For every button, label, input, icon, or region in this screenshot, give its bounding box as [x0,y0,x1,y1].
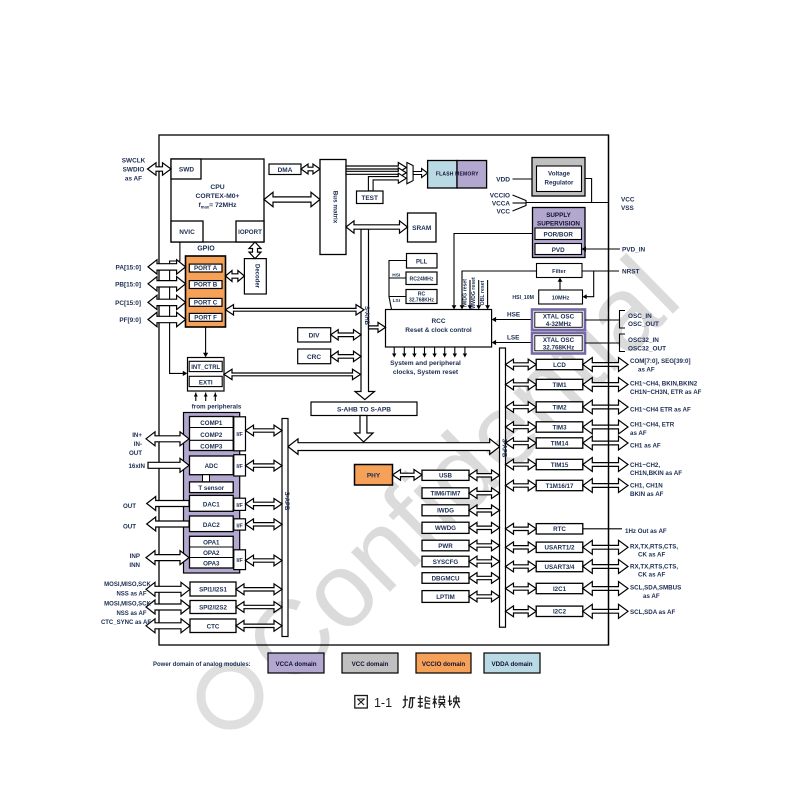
arrow I2C1-pins [583,582,628,596]
wire HSE line [496,319,532,321]
svg-text:OUT: OUT [123,523,136,530]
block MEMORY (purple) [457,161,487,189]
block XTAL OSC 32KHz inner [535,336,582,351]
svg-text:XTAL OSC: XTAL OSC [543,337,575,344]
svg-text:VCC domain: VCC domain [352,661,389,668]
svg-text:FLASH MEMORY: FLASH MEMORY [436,172,479,178]
svg-text:DIV: DIV [309,333,321,340]
svg-text:SUPPLY: SUPPLY [546,212,571,219]
block INT_CTRL outer [188,358,225,392]
svg-text:LSI: LSI [393,298,401,304]
arrow COMP inputs [146,432,189,446]
group analog domain (purple) [184,413,240,574]
svg-text:COM[7:0], SEG[39:0]: COM[7:0], SEG[39:0] [630,358,691,365]
arrow TIM3-pins [583,420,628,434]
svg-text:MOSI,MISO,SCK: MOSI,MISO,SCK [104,601,151,607]
arrow USART1/2-pins [583,540,628,554]
wire PVD_IN line [582,248,621,250]
svg-text:SCL,SDA,SMBUS: SCL,SDA,SMBUS [630,585,681,592]
block LPTIM [422,591,469,603]
svg-text:CK as AF: CK as AF [638,552,665,559]
wire OBL reset line [487,280,489,306]
node EXTI tick arrowheads [194,393,198,397]
arrow LCD-pins [583,358,628,372]
wire VCCIO tick [513,195,527,201]
block TIM15 [536,459,583,469]
svg-text:USB: USB [439,473,453,480]
block SPI1/I2S1 [190,582,236,596]
svg-text:INP: INP [130,553,140,560]
bar left S-APB [282,419,288,637]
block USB [422,470,469,480]
wire rail to RCC [389,297,392,310]
wire OSC bracket [620,311,626,329]
svg-text:PA[15:0]: PA[15:0] [116,264,141,271]
node arrowhead 10MHz-Filter [558,278,563,282]
svg-text:PB[15:0]: PB[15:0] [115,281,141,288]
svg-text:SUPERVISION: SUPERVISION [537,221,580,228]
svg-text:as AF: as AF [638,367,655,374]
arrow busmatrix-flashmux lower [346,168,406,178]
svg-text:WWDG reset: WWDG reset [471,277,477,309]
block EXTI [189,376,222,386]
svg-text:IN-: IN- [134,441,142,448]
svg-text:CH1~CH4 ETR as AF: CH1~CH4 ETR as AF [630,407,691,414]
svg-text:S-APB: S-APB [283,492,289,511]
svg-text:I/F: I/F [236,524,243,530]
svg-text:TIM2: TIM2 [552,404,567,411]
block PHY (orange) [355,465,393,486]
wire LSE line [496,342,532,344]
wire NRST junction to 10MHz [586,271,594,297]
block CTC [190,619,236,633]
arrow DAC1 OUT [147,497,189,511]
svg-text:OPA1: OPA1 [203,540,220,547]
block PORT B [189,281,222,289]
block PVD [535,244,582,255]
arrow CTC pins [146,619,190,633]
arrow GPIO-SAHB bus [226,305,365,315]
block DIV [298,328,331,342]
block FLASH (blue) [428,161,457,189]
svg-text:EXTI: EXTI [199,379,213,386]
svg-text:32.768KHz: 32.768KHz [543,345,575,352]
svg-text:PHY: PHY [367,473,381,480]
block TIM14 [536,438,583,448]
block TEST [357,191,384,204]
arrow PB port [148,277,186,291]
arrow flashmux-flash [413,169,428,178]
arrow S-APB backbone [288,439,500,455]
node arrowhead LSE [492,340,497,345]
svg-text:RX,TX,RTS,CTS,: RX,TX,RTS,CTS, [630,564,678,571]
svg-text:I/F: I/F [236,503,243,509]
svg-text:TIM14: TIM14 [551,440,569,447]
svg-text:PVD: PVD [552,247,565,254]
svg-text:1-1: 1-1 [374,696,392,710]
svg-text:INN: INN [129,562,140,569]
arrow TIM2-pins [583,400,628,414]
block XTAL OSC 4-32MHz inner [535,312,582,327]
block 10MHz [539,290,583,304]
block DAC1 [190,495,234,511]
svg-text:S-APB: S-APB [501,439,507,458]
block SPI2/I2S2 [190,601,236,614]
block COMP stack [190,417,234,451]
arrow USB-bar [469,470,500,481]
svg-text:IN+: IN+ [132,432,142,439]
svg-text:S-AHB: S-AHB [363,306,369,326]
block Voltage Regulator outer (gray) [532,158,585,197]
arrow DAC2-bar [246,519,283,530]
arrow bar-USART1/2 [506,542,537,553]
svg-text:Regulator: Regulator [545,180,574,187]
svg-text:VCC: VCC [497,209,511,216]
svg-text:CH1 as AF: CH1 as AF [630,443,661,450]
block RTC [536,524,583,534]
block SUPPLY SUPERVISION (purple) [533,208,586,258]
svg-text:CTC_SYNC as AF: CTC_SYNC as AF [101,620,151,626]
svg-text:as AF: as AF [630,430,647,437]
block T1M16/17 [536,480,583,490]
arrow IWDG-bar [469,505,500,516]
arrow bar-LCD [506,359,537,370]
svg-text:System and peripheral: System and peripheral [390,360,461,367]
svg-text:clocks, System reset: clocks, System reset [393,369,459,376]
wire RTC 1Hz line [583,528,622,530]
arrow TIM14-pins [583,436,628,450]
block OPA I/F [234,550,246,570]
svg-text:PVD_IN: PVD_IN [622,247,645,254]
block GPIO group (orange) [186,256,226,327]
block SRAM [408,213,437,242]
svg-text:1Hz Out as AF: 1Hz Out as AF [625,528,667,535]
svg-text:LCD: LCD [553,362,566,369]
wire Filter to RCC [462,271,537,306]
arrow GPIO-Decoder [226,271,245,282]
block TIM1 [536,379,583,389]
node arrowhead into INT_CTRL [183,371,188,376]
svg-text:PORT F: PORT F [194,314,217,321]
arrow SYSCFG-bar [469,556,500,567]
svg-text:CK as AF: CK as AF [638,572,665,579]
arrow USART3/4-pins [583,560,628,574]
arrow CTC-bar [236,620,282,631]
svg-text:IOPORT: IOPORT [238,229,262,236]
svg-text:4-32MHz: 4-32MHz [546,321,572,328]
arrow bar-RTC [506,523,537,534]
svg-text:TIM15: TIM15 [551,462,569,469]
svg-text:PORT C: PORT C [194,299,218,306]
wire OSC line [585,319,620,321]
wire HSI stub [389,277,406,279]
svg-text:I/F: I/F [236,432,243,438]
arrow IOPORT-Decoder [249,242,261,259]
svg-text:I2C1: I2C1 [553,586,567,593]
wire regulator to VCC line [585,179,592,203]
wire VCC tick [513,206,527,212]
svg-text:PF[9:0]: PF[9:0] [119,317,141,324]
wire EXTI tick 2 [205,393,207,402]
svg-text:I/F: I/F [236,464,243,470]
wire OSC32 bracket [620,334,626,352]
block ADC [190,456,234,475]
svg-text:GPIO: GPIO [197,246,215,253]
wire VCCA tick [513,202,527,204]
svg-text:Power domain of analog modules: Power domain of analog modules: [153,662,251,668]
arrow OPA-bar [246,555,283,566]
block CPU CORTEX-M0+ [171,159,264,242]
svg-text:CH1~CH2,: CH1~CH2, [630,462,660,469]
block Voltage Regulator inner [537,166,582,192]
arrow COMP-bar [246,425,283,436]
block LCD [536,359,583,369]
arrow bar-TIM1 [506,379,537,390]
caption 图 1-1 功能模块 [355,696,368,709]
block DAC1 I/F [234,498,246,510]
block DMA [269,164,301,175]
svg-text:Voltage: Voltage [548,171,570,178]
arrow bar-T1M16/17 [506,480,537,491]
block TIM6/TIM7 [422,488,469,499]
svg-text:USART3/4: USART3/4 [545,564,575,571]
wire TEST elbow to flashmux [368,173,406,191]
arrow DMA-busmatrix [301,164,320,174]
wire power bracket bar [525,200,527,206]
arrow PA port [148,260,186,274]
svg-text:VCCA domain: VCCA domain [275,661,316,668]
svg-text:WWDG: WWDG [435,525,456,532]
arrow bar-TIM15 [506,459,537,470]
svg-text:COMP1: COMP1 [200,420,223,427]
svg-text:Reset & clock control: Reset & clock control [405,327,472,334]
block T sensor [190,482,234,493]
bar right S-APB [500,348,506,627]
block CRC [298,349,331,364]
svg-text:LSE: LSE [507,335,520,342]
svg-text:32.768KHz: 32.768KHz [409,298,435,304]
block DAC2 [190,516,234,532]
arrow DAC2 OUT [147,517,189,531]
svg-text:PORT B: PORT B [194,282,218,289]
svg-text:DAC2: DAC2 [203,522,220,529]
node arrowhead Filter-RCC [460,305,465,309]
arrow SAHB2SAPB down [354,416,373,442]
arrow SPI1-bar [236,584,282,595]
svg-text:IWDG: IWDG [437,508,454,515]
arrow bar-I2C1 [506,583,537,594]
arrow LPTIM-bar [469,591,500,602]
arrow DAC1-bar [246,499,283,510]
svg-text:OSC_OUT: OSC_OUT [628,321,659,328]
block DAC2 I/F [234,519,246,530]
arrow DBGMCU-bar [469,573,500,584]
block RC24MHz [406,272,437,285]
svg-text:SPI2/I2S2: SPI2/I2S2 [199,605,227,612]
svg-text:CORTEX-M0+: CORTEX-M0+ [196,193,240,200]
svg-text:DBGMCU: DBGMCU [432,575,460,582]
svg-text:VDD: VDD [496,177,510,184]
svg-text:CH1N~CH3N, ETR as AF: CH1N~CH3N, ETR as AF [630,389,702,396]
block TIM3 [536,422,583,432]
arrow I2C2-pins [583,604,628,618]
svg-text:TEST: TEST [361,195,378,202]
svg-text:CH1~CH4, ETR: CH1~CH4, ETR [630,422,675,429]
wire OSC32 line [585,342,620,344]
svg-text:as AF: as AF [643,593,660,600]
bus S-AHB vertical pipe [355,229,375,400]
block DBGMCU [422,573,469,584]
svg-text:VCCA: VCCA [492,201,510,208]
svg-text:Bus matrix: Bus matrix [332,191,339,224]
arrow CPU-busmatrix [264,192,320,206]
svg-text:VDDA domain: VDDA domain [491,661,532,668]
svg-text:T sensor: T sensor [198,485,224,492]
svg-text:NSS as AF: NSS as AF [116,611,146,617]
arrow TIM15-pins [583,458,628,472]
arrow bar-I2C2 [506,606,537,617]
svg-text:TIM3: TIM3 [552,424,567,431]
block IOPORT [236,221,264,242]
legend VCC domain [342,653,398,673]
node arrowhead POR-RCC [452,305,457,309]
block OPA stack [190,536,234,568]
wire OPA divider 1 [190,546,234,548]
block NVIC [171,221,203,242]
block ADC I/F [234,455,246,476]
arrow busmatrix-SRAM [346,221,408,233]
frame outer boundary [159,135,609,645]
wire WWDG reset line [478,280,480,306]
arrow SWCLK-SWD [148,163,172,175]
block POR/BOR [535,228,582,240]
svg-text:PORT A: PORT A [194,265,218,272]
arrow SPI2-bar [236,602,282,613]
svg-text:USART1/2: USART1/2 [545,545,575,552]
legend VDDA domain [484,653,540,673]
svg-text:XTAL OSC: XTAL OSC [543,314,575,321]
svg-text:TIM1: TIM1 [552,382,567,389]
svg-text:CRC: CRC [307,354,321,361]
svg-text:from peripherals: from peripherals [192,404,242,411]
frame right edge overlay [608,135,610,645]
svg-text:SRAM: SRAM [412,225,431,232]
svg-text:CTC: CTC [207,623,220,630]
svg-text:OSC_IN: OSC_IN [628,313,652,320]
svg-text:T1M16/17: T1M16/17 [546,483,574,490]
svg-text:I2C2: I2C2 [553,609,567,616]
block USART3/4 [536,561,583,571]
svg-text:SPI1/I2S1: SPI1/I2S1 [199,587,227,594]
svg-text:S-AHB TO S-APB: S-AHB TO S-APB [337,406,391,413]
wire clock rail [389,261,407,297]
block Bus matrix [320,160,346,255]
svg-text:RTC: RTC [553,526,566,533]
svg-text:NVIC: NVIC [179,229,195,236]
block PLL [407,254,438,269]
svg-text:NSS as AF: NSS as AF [116,591,146,597]
svg-text:IWDG reset: IWDG reset [463,279,469,307]
node arrowhead to 10MHz [583,294,587,299]
svg-text:16xIN: 16xIN [128,463,145,470]
node arrowhead IWDG reset [468,305,473,309]
arrow 16xIN [148,458,189,472]
svg-text:CH1N,BKIN as AF: CH1N,BKIN as AF [630,470,682,477]
legend VCCIO domain [416,653,471,673]
svg-text:RCC: RCC [431,318,445,325]
wire EXTI tick 1 [195,393,197,402]
wire EXTI tick 3 [214,393,216,402]
block PWR [422,540,469,551]
svg-text:SWD: SWD [179,167,194,174]
arrow T1M16/17-pins [583,479,628,493]
block TIM2 [536,402,583,412]
block I2C1 [536,583,583,593]
svg-text:OSC32_IN: OSC32_IN [628,337,659,344]
block RCC [386,310,492,348]
block SYSCFG [422,556,469,567]
svg-text:HSI: HSI [392,273,401,279]
block IWDG [422,505,469,516]
arrow ADC-bar [246,460,283,471]
block COMP I/F [234,417,246,451]
block PORT A [189,264,222,272]
block S-AHB TO S-APB [311,402,417,416]
svg-text:Filter: Filter [552,269,566,275]
wire VDD line [513,178,533,180]
svg-text:OPA2: OPA2 [203,550,220,557]
svg-text:OBL reset: OBL reset [480,280,486,305]
node arrowhead OBL reset [485,305,490,309]
svg-text:COMP3: COMP3 [200,443,223,450]
arrow bar-USART3/4 [506,561,537,572]
block XTAL OSC 4-32MHz outer [532,310,585,331]
arrow TIM1-pins [583,378,628,392]
wire POR to RCC [454,234,535,307]
wire GPIO to INT_CTRL [205,327,207,355]
block Filter [537,264,583,278]
arrow OPA INP INN [146,551,189,565]
svg-text:OPA3: OPA3 [203,561,220,568]
svg-text:DMA: DMA [278,167,293,174]
svg-text:OUT: OUT [129,450,142,457]
svg-text:SCL,SDA as AF: SCL,SDA as AF [630,609,675,616]
svg-text:PC[15:0]: PC[15:0] [115,300,141,307]
block USART1/2 [536,542,583,552]
svg-text:SYSCFG: SYSCFG [433,559,459,566]
svg-text:CH1~CH4, BKIN,BKIN2: CH1~CH4, BKIN,BKIN2 [630,381,698,388]
arrow bar-TIM2 [506,402,537,413]
svg-text:VCC: VCC [621,197,635,204]
wire NRST line [582,270,619,272]
wire COMP divider 2 [190,439,234,441]
block XTAL OSC 32KHz outer [532,333,585,354]
arrow SPI2 pins [146,600,190,614]
arrow EXTI-SAHB bus [224,369,361,379]
wire IWDG reset line [469,280,471,306]
svg-text:COMP2: COMP2 [200,432,223,439]
arrow DIV-bus [331,330,361,340]
svg-text:TIM6/TIM7: TIM6/TIM7 [431,490,461,497]
svg-text:VCCIO domain: VCCIO domain [422,661,466,668]
svg-text:OSC32_OUT: OSC32_OUT [628,346,666,353]
block SWD [171,159,201,179]
svg-text:CH1, CH1N: CH1, CH1N [630,483,663,490]
svg-text:HSI_10M: HSI_10M [512,295,534,301]
arrow CRC-bus [331,351,361,361]
wire VCC VSS line [526,202,609,204]
arrow busmatrix-flashmux upper [346,163,406,173]
